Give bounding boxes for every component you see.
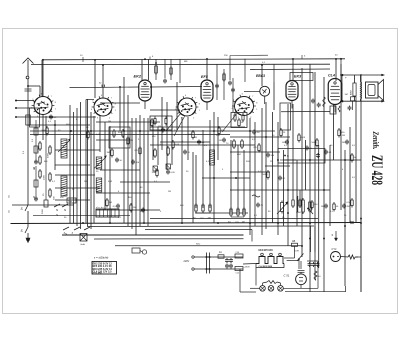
junction node 36	[309, 238, 311, 240]
resistor R51	[341, 255, 359, 259]
value label 7	[108, 121, 111, 123]
wire EK2 grid left	[70, 86, 139, 89]
svg-text:7: 7	[51, 96, 52, 98]
label speaker net	[345, 94, 348, 96]
switch label S11	[33, 195, 35, 199]
wire vertical x153	[152, 122, 154, 160]
svg-text:6: 6	[101, 95, 102, 97]
value label 50	[180, 205, 184, 207]
output transformer T-out coil	[361, 82, 362, 99]
wire bottom bus 1	[150, 218, 318, 220]
wire horizontal y165	[55, 164, 90, 166]
svg-text:AB: AB	[292, 240, 296, 243]
wire vertical x310	[309, 64, 311, 292]
value label 44	[342, 169, 344, 171]
wire vertical x250	[249, 118, 251, 235]
wire vertical x162	[161, 97, 163, 150]
wire vertical x128	[127, 95, 129, 226]
value label 11	[152, 136, 156, 138]
resistor R7	[135, 146, 142, 156]
capacitor C8	[131, 160, 140, 165]
resistor R37	[263, 170, 270, 180]
resistor R21	[280, 128, 286, 138]
junction node 17	[360, 222, 362, 224]
svg-text:1M: 1M	[194, 137, 197, 139]
wire horizontal y172	[230, 171, 270, 173]
wire bus corner drop	[311, 226, 316, 252]
wire vertical x315	[314, 72, 316, 280]
wire vertical x238	[237, 145, 239, 212]
value label 34	[128, 197, 132, 199]
svg-text:2M: 2M	[109, 202, 112, 204]
svg-text:CL4: CL4	[328, 74, 335, 78]
IF1 can parts	[154, 117, 167, 129]
wire interstage x233	[232, 78, 234, 112]
resistor R52	[314, 271, 321, 281]
svg-text:CY1: CY1	[332, 247, 338, 251]
tone resistor R28	[302, 198, 305, 214]
junction node 10	[109, 222, 111, 224]
wire vertical x272.5	[272, 112, 274, 223]
wire horizontal y178	[202, 177, 250, 179]
tube EBC3 label	[256, 74, 265, 78]
wire EK2 grid right	[151, 86, 202, 89]
svg-text:10M: 10M	[282, 142, 286, 144]
value label 28	[60, 197, 64, 199]
wire V2 bus drop	[94, 60, 96, 98]
capacitor C30	[311, 99, 315, 104]
value label 55	[344, 215, 347, 217]
switch row S4	[63, 227, 90, 236]
label plus250	[244, 267, 251, 269]
wire V1 left a	[16, 100, 34, 102]
value label 5	[86, 127, 89, 129]
svg-text:1M: 1M	[342, 142, 345, 144]
dial lamp L1	[260, 286, 266, 292]
switch label S10	[33, 166, 35, 170]
resistor R19	[254, 143, 261, 153]
switch S1a on antenna lead	[21, 205, 29, 227]
value label 9	[126, 144, 129, 146]
capacitor C42	[342, 204, 350, 209]
label top mid	[184, 61, 188, 63]
svg-text:EK3: EK3	[294, 75, 302, 79]
capacitor C14	[197, 140, 205, 145]
feedback box	[278, 149, 325, 164]
svg-text:1: 1	[256, 109, 257, 111]
capacitor C-top1	[163, 79, 167, 84]
capacitor C-top60	[99, 83, 105, 88]
top bus tick b	[150, 56, 154, 59]
wire vertical x297	[296, 160, 298, 226]
tube CY1	[331, 252, 341, 262]
wire vertical x70	[69, 105, 71, 223]
wire vertical x100	[99, 116, 101, 152]
resistor R29	[351, 153, 357, 163]
junction node 29	[309, 159, 311, 161]
wire heater bus 1	[94, 238, 244, 240]
wire horizontal y213	[195, 212, 248, 214]
wire vertical x214	[213, 112, 215, 223]
svg-text:5000: 5000	[263, 174, 269, 176]
junction node 38	[344, 225, 346, 227]
wire bottom bus 2	[11, 223, 362, 224]
wire vertical x148	[147, 118, 149, 226]
wire vertical x86	[85, 100, 87, 224]
switch label S12	[56, 213, 58, 217]
value label 3	[66, 124, 70, 126]
wire AVC line 2	[30, 134, 230, 136]
IF2 resistor a	[233, 139, 236, 149]
tube CL4 label	[328, 74, 335, 78]
component box EK3 left	[280, 103, 291, 130]
svg-text:+250V: +250V	[244, 267, 251, 269]
wire vertical x193	[192, 152, 194, 223]
capacitor C26	[324, 150, 332, 155]
capacitor C20	[266, 153, 275, 158]
label top right	[262, 62, 266, 64]
wire bottom bus 3	[87, 225, 314, 228]
wire mains top	[192, 256, 243, 258]
resistor col R42	[39, 169, 46, 180]
label ZU 428	[368, 155, 385, 185]
svg-text:5000: 5000	[42, 130, 48, 132]
wire col left c	[45, 130, 47, 200]
capacitor C10	[158, 128, 165, 133]
svg-text:Tast: Tast	[68, 200, 72, 203]
value label 8	[118, 132, 122, 134]
wire bus drop x274	[273, 64, 275, 82]
resistor S-curve R30	[323, 97, 325, 107]
resistor R3	[87, 130, 94, 140]
junction node 31	[15, 116, 17, 118]
tube EF5	[201, 80, 213, 110]
wire vertical x350	[349, 127, 351, 223]
svg-text:6: 6	[41, 93, 42, 95]
wire vertical x73.5	[73, 112, 75, 223]
resistor col R43	[48, 145, 52, 158]
wire horizontal y152	[230, 151, 280, 153]
IF1 resistor a	[154, 148, 157, 158]
value label 37	[168, 191, 171, 193]
IF2 resistor b	[237, 139, 243, 156]
wire mains bottom	[192, 268, 243, 270]
top bus junction e	[335, 55, 342, 60]
capacitor C31	[113, 204, 120, 209]
resistor row R22	[208, 203, 212, 220]
wire vertical x188	[187, 117, 189, 160]
svg-text:3: 3	[97, 117, 98, 119]
component box X3	[235, 267, 243, 275]
wire vertical x283.5	[283, 150, 285, 226]
capacitor C5	[115, 158, 123, 163]
IF1 cap b	[166, 164, 170, 169]
junction node 15	[277, 222, 279, 224]
svg-text:1M: 1M	[84, 181, 87, 183]
capacitor C31	[317, 103, 321, 108]
wire horizontal y122	[96, 121, 160, 123]
wire vertical x105	[104, 122, 106, 210]
tube EBC3	[244, 86, 270, 104]
wire vertical x218	[217, 117, 219, 160]
value label 18	[226, 143, 229, 145]
value label 25	[352, 145, 356, 147]
wire V2 grid stub	[86, 99, 94, 101]
junction node 28	[277, 159, 279, 161]
junction tick right	[351, 221, 354, 224]
value label 26	[44, 161, 48, 163]
top bus tick c	[224, 55, 230, 59]
heater chain bottom	[256, 264, 284, 268]
value label 20	[258, 151, 261, 153]
junction node 20	[150, 86, 152, 88]
resistor R9	[151, 118, 157, 128]
wire V1 left ends	[15, 100, 17, 110]
svg-text:6mA: 6mA	[81, 243, 86, 246]
wire bus drop x171	[170, 59, 172, 80]
voltage table	[92, 262, 117, 275]
resistor R30	[106, 198, 112, 208]
svg-text:1000: 1000	[44, 174, 46, 180]
resistor col R46	[32, 128, 38, 142]
wire horizontal y137	[230, 136, 290, 138]
svg-text:8: 8	[115, 104, 116, 106]
value label 38	[186, 171, 189, 173]
label S left margin b	[8, 210, 10, 214]
svg-text:S: S	[56, 208, 58, 212]
capacitor C16	[231, 88, 235, 93]
svg-text:1A: 1A	[219, 251, 222, 254]
capacitor C35	[166, 170, 175, 175]
IF transformer IF1 can	[150, 116, 172, 130]
wire top bus left drop	[41, 60, 43, 96]
switch label 3a	[64, 232, 66, 235]
wire vertical x300	[299, 190, 301, 208]
wire vertical x341	[340, 64, 342, 210]
component box X2	[235, 252, 243, 258]
wire horizontal y190	[230, 189, 330, 191]
wire horizontal y170	[100, 169, 140, 171]
tone resistor R29	[309, 200, 312, 213]
rectifier C51	[296, 261, 307, 285]
junction node 1	[42, 59, 44, 61]
component box V1 input	[30, 108, 40, 127]
svg-text:S: S	[33, 166, 35, 170]
junction node 40	[213, 177, 215, 179]
tube socket V2	[91, 95, 116, 120]
junction node 41	[235, 177, 237, 179]
resistor R-lamp bypass	[263, 281, 281, 286]
varcap arrow L3	[94, 156, 107, 169]
wire horizontal y160	[283, 159, 361, 161]
value label 49	[160, 211, 162, 213]
wire vertical x167	[166, 102, 168, 170]
top bus tick d	[302, 55, 306, 59]
coil L3	[96, 157, 102, 169]
wire bus drop x262	[261, 65, 263, 86]
value label 36	[154, 181, 158, 183]
switch S2 box tast	[67, 198, 76, 203]
svg-text:2M: 2M	[256, 132, 259, 134]
wire vertical x305.5	[305, 140, 307, 190]
wire speaker bottom	[340, 75, 385, 102]
wire interstage x224	[223, 69, 225, 100]
wire horizontal y193	[96, 192, 150, 194]
wire bus drop x148	[148, 59, 150, 80]
svg-text:S: S	[33, 195, 35, 199]
junction node 3	[102, 64, 104, 66]
IF2 can parts	[234, 113, 244, 122]
tone coil L10	[296, 196, 299, 217]
wire bus drop x336	[335, 59, 337, 81]
resistor R4	[107, 148, 114, 158]
output transformer resistor	[350, 81, 357, 98]
capacitor C36	[256, 203, 264, 208]
svg-text:8: 8	[256, 103, 257, 105]
wire vertical x177	[176, 82, 178, 130]
resistor row R21	[201, 203, 205, 220]
wire vertical x318.7	[318, 145, 320, 268]
svg-text:a b c d e: a b c d e	[96, 207, 105, 209]
svg-text:2: 2	[109, 117, 110, 119]
junction node 37	[323, 238, 325, 240]
wire bus drop x230	[229, 59, 231, 80]
wire transformer leads	[345, 75, 361, 101]
wire vertical x231	[230, 140, 232, 212]
resistor R27	[338, 128, 345, 138]
wire bus drop x208	[206, 59, 208, 80]
switch S21 marks	[332, 231, 338, 241]
coil L4	[96, 178, 102, 192]
value label 51	[254, 215, 258, 217]
wire V1 top	[42, 60, 44, 97]
value label 47	[118, 217, 122, 219]
wire horizontal y175	[55, 174, 95, 176]
wire bottom right link	[285, 286, 346, 292]
wire vertical x77	[76, 108, 78, 226]
value label 19	[252, 139, 256, 141]
wire resistor row link	[196, 213, 244, 217]
label table header	[94, 256, 108, 260]
speaker LS1 magnet	[366, 82, 379, 98]
junction node 23	[123, 130, 125, 132]
resistor R23	[298, 133, 306, 143]
value label 27	[52, 181, 56, 183]
resistor row R27	[296, 198, 302, 214]
svg-text:2M: 2M	[346, 206, 349, 208]
resistor R-top1	[155, 62, 158, 75]
tube socket V1	[31, 93, 56, 118]
junction node 2	[94, 59, 96, 61]
junction node 18	[27, 85, 29, 87]
junction node 12	[181, 222, 183, 224]
wire vertical x110	[109, 126, 111, 223]
resistor row R23	[228, 207, 232, 224]
coil L2	[61, 176, 67, 196]
svg-text:ε = ±(Stufe): ε = ±(Stufe)	[94, 256, 108, 260]
wire vertical x255	[254, 122, 256, 226]
svg-text:10M: 10M	[158, 130, 162, 132]
value label 24	[342, 135, 345, 137]
capacitor C28	[342, 140, 349, 145]
resistor row R26	[292, 198, 294, 208]
pickup socket box	[132, 248, 147, 254]
wire top bus	[42, 59, 345, 60]
coil L1	[61, 139, 67, 158]
diagonal wire V4 a	[222, 112, 238, 132]
resistor R25	[312, 138, 319, 148]
junction node 32	[54, 124, 56, 126]
capacitor C52	[307, 261, 320, 267]
junction node 35	[301, 245, 303, 247]
wire col left b	[35, 166, 37, 199]
antenna terminal	[26, 76, 29, 122]
svg-text:1M: 1M	[345, 94, 348, 96]
wire top seg a	[230, 54, 268, 56]
svg-text:S: S	[56, 213, 58, 217]
wire vertical x345	[344, 150, 346, 286]
wire vertical x144	[143, 118, 145, 223]
feedback box parts	[280, 153, 320, 160]
junction node 27	[265, 136, 267, 138]
svg-text:4: 4	[91, 109, 92, 111]
switch row S3	[54, 204, 68, 212]
ground arrow antenna	[26, 233, 30, 243]
wire right drop	[356, 219, 361, 293]
capacitor col C47	[34, 160, 38, 171]
svg-text:S: S	[8, 195, 10, 199]
wire vertical x140	[139, 115, 141, 226]
value label 52	[268, 211, 271, 213]
wire horizontal y117	[16, 116, 97, 118]
resistor R11	[172, 140, 180, 150]
top bus tick a	[80, 55, 83, 62]
wire antenna to grid	[28, 86, 40, 96]
wire horizontal y188	[55, 187, 100, 189]
junction node 21	[70, 130, 72, 132]
svg-text:7: 7	[195, 98, 196, 100]
wire speaker top	[340, 74, 385, 76]
component box EK3 top	[290, 73, 313, 81]
heater labels bottom	[259, 265, 273, 268]
junction node 9	[82, 222, 84, 224]
svg-text:S: S	[8, 210, 10, 214]
wire vertical x91	[90, 112, 92, 229]
svg-text:5: 5	[92, 101, 93, 103]
potentiometer P1	[277, 201, 288, 215]
resistor R6	[127, 136, 133, 146]
switch S1b on antenna lead	[21, 227, 29, 233]
wire vertical x136	[135, 118, 137, 235]
wire bus drop x245	[244, 59, 246, 82]
resistor col R45	[49, 188, 56, 200]
svg-text:CL4 EK3 EM4: CL4 EK3 EM4	[259, 265, 273, 268]
value label 1	[48, 121, 52, 123]
wire top bus lower	[31, 63, 330, 65]
resistor R41	[333, 202, 339, 212]
svg-text:EK2 EF5 EF9: EK2 EF5 EF9	[259, 250, 274, 252]
svg-text:1M: 1M	[107, 152, 110, 154]
svg-text:10M: 10M	[152, 172, 156, 174]
value label 14	[182, 141, 184, 143]
wire vertical x132	[131, 118, 133, 229]
value label 48	[140, 211, 143, 213]
svg-text:2M: 2M	[130, 140, 133, 142]
value label 22	[284, 145, 288, 147]
junction node 34	[323, 189, 325, 191]
tube EK2 label	[134, 74, 142, 79]
capacitor C38	[278, 176, 286, 181]
